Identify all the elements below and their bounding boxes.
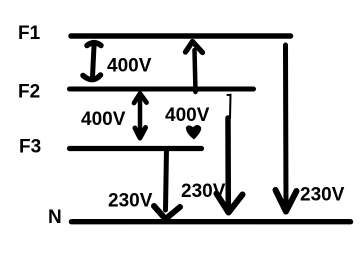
phase line F3 (70, 146, 202, 151)
phase line F1 (71, 33, 291, 39)
double arrow 400V F2-F3 (134, 94, 147, 139)
down arrow 230V F2-N (217, 95, 243, 213)
svg-text:400V: 400V (107, 56, 152, 77)
svg-text:400V: 400V (165, 105, 210, 126)
svg-text:230V: 230V (300, 185, 345, 206)
down arrow 230V F1-N (276, 45, 297, 212)
svg-text:230V: 230V (108, 191, 153, 212)
double arrow 400V F1-F2 (83, 43, 101, 80)
svg-text:400V: 400V (81, 109, 126, 130)
svg-text:F1: F1 (18, 23, 41, 44)
up arrow 400V F2-F1 (186, 42, 203, 93)
svg-text:N: N (48, 207, 62, 228)
svg-text:F3: F3 (19, 137, 41, 158)
small down arrowhead under 400V (186, 125, 201, 140)
svg-text:230V: 230V (181, 181, 226, 202)
neutral line N (72, 219, 351, 224)
svg-text:F2: F2 (18, 82, 40, 103)
down arrow 230V F3-N (154, 149, 180, 219)
phase line F2 (70, 87, 254, 92)
